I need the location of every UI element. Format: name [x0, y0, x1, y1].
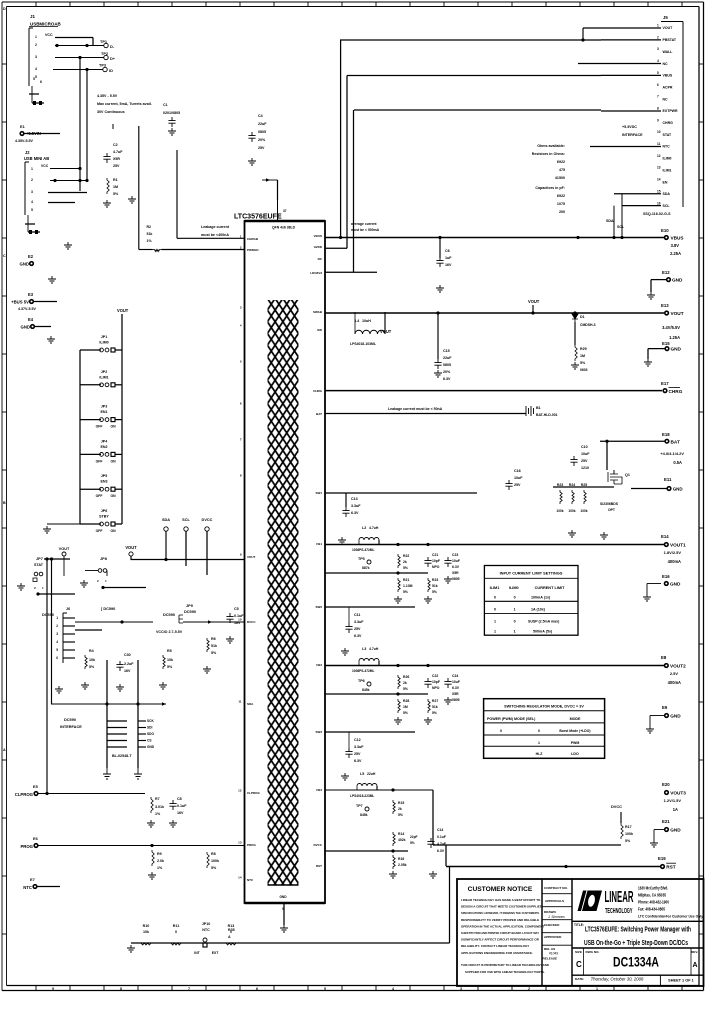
J1 shield stub	[31, 86, 33, 103]
schematic frame inner border	[7, 6, 700, 8]
svg-text:LPS4018-103ML: LPS4018-103ML	[350, 342, 376, 346]
svg-text:5%: 5%	[211, 866, 217, 870]
svg-text:+4.0/4.1/4.2V: +4.0/4.1/4.2V	[660, 451, 684, 456]
svg-text:100k: 100k	[580, 509, 587, 513]
svg-text:TITLE:: TITLE:	[574, 923, 584, 927]
svg-text:INTERFACE: INTERFACE	[622, 133, 643, 137]
svg-text:DC590: DC590	[64, 718, 76, 722]
wire J6 to JP9 row	[75, 621, 153, 623]
svg-text:Thursday, October 30, 2008: Thursday, October 30, 2008	[591, 977, 644, 982]
svg-text:C8: C8	[177, 797, 182, 801]
svg-text:6.3V: 6.3V	[452, 686, 460, 690]
svg-text:3.3uF: 3.3uF	[351, 504, 361, 508]
svg-text:E6: E6	[33, 837, 38, 841]
svg-text:GND: GND	[672, 278, 683, 283]
battery B1	[526, 406, 534, 416]
svg-text:3.3uF: 3.3uF	[354, 620, 364, 624]
svg-text:5: 5	[657, 71, 659, 75]
svg-text:10pF: 10pF	[432, 559, 440, 563]
J6 pin 3 stub	[63, 633, 75, 635]
svg-text:402k: 402k	[398, 838, 406, 842]
svg-text:E11: E11	[664, 477, 672, 482]
svg-text:4.37V-5.5V: 4.37V-5.5V	[18, 307, 37, 311]
svg-text:3.01k: 3.01k	[155, 805, 165, 809]
svg-text:1630 McCarthy Blvd.: 1630 McCarthy Blvd.	[638, 886, 668, 891]
svg-text:L2: L2	[362, 526, 366, 530]
svg-text:Burst Mode (+LDO): Burst Mode (+LDO)	[559, 729, 590, 733]
svg-text:15: 15	[657, 189, 661, 193]
wire NTC network row	[131, 942, 450, 944]
svg-text:INPUT CURRENT LIMIT SETTINGS: INPUT CURRENT LIMIT SETTINGS	[500, 572, 563, 576]
svg-text:0: 0	[175, 930, 177, 934]
svg-text:10k: 10k	[167, 658, 174, 662]
svg-text:[ DC590: [ DC590	[101, 607, 115, 611]
svg-text:5%: 5%	[403, 590, 408, 594]
svg-text:400mA: 400mA	[668, 559, 681, 564]
wire RST rail to turret	[446, 866, 660, 868]
svg-text:VOUT2: VOUT2	[670, 664, 686, 669]
wire D+ vertical to pin row	[176, 150, 178, 238]
svg-text:3: 3	[657, 47, 659, 51]
wire SCL drop from J5	[613, 206, 615, 238]
svg-text:NTC: NTC	[663, 145, 671, 149]
svg-text:2.25A: 2.25A	[670, 251, 681, 256]
svg-text:R24: R24	[569, 483, 575, 487]
J6 pin 1 stub	[63, 617, 75, 619]
wire J5 pin16 SCL stub	[622, 205, 661, 207]
svg-text:J2: J2	[25, 150, 30, 155]
svg-text:BAT: BAT	[671, 439, 680, 444]
ground for J2	[64, 242, 72, 249]
svg-text:C2: C2	[113, 143, 118, 147]
grounds buck2	[394, 717, 402, 724]
svg-text:200: 200	[559, 210, 565, 214]
svg-text:E8: E8	[661, 655, 667, 660]
wire DC590 bus rail	[51, 703, 166, 705]
ground under C11	[341, 648, 349, 655]
svg-text:SHEET 1 OF 1: SHEET 1 OF 1	[668, 979, 694, 983]
svg-text:TECHNOLOGY: TECHNOLOGY	[605, 906, 633, 915]
wire C4 to U1 top pin	[262, 179, 278, 181]
svg-text:6: 6	[40, 80, 42, 84]
svg-text:5%: 5%	[410, 841, 415, 845]
svg-text:4: 4	[56, 640, 58, 644]
svg-text:GND: GND	[673, 487, 684, 492]
svg-text:1.8V/2.5V: 1.8V/2.5V	[664, 550, 682, 555]
svg-text:SSQ-116-02-G-S: SSQ-116-02-G-S	[643, 212, 671, 216]
wire PROG to U1	[38, 845, 245, 847]
wire vertical rail 3	[353, 110, 355, 272]
svg-text:8: 8	[657, 106, 659, 110]
svg-text:1075: 1075	[557, 202, 565, 206]
svg-text:STBY: STBY	[99, 515, 109, 519]
svg-text:STAT: STAT	[34, 563, 44, 567]
svg-text:0: 0	[514, 596, 516, 600]
svg-text:0: 0	[500, 729, 502, 733]
svg-text:2.5V: 2.5V	[670, 671, 678, 676]
schematic frame outer border	[2, 1, 704, 3]
svg-text:JP1: JP1	[101, 335, 107, 339]
svg-text:1008PS-472ML: 1008PS-472ML	[352, 669, 374, 673]
svg-text:20%: 20%	[443, 370, 451, 374]
svg-text:must be <400nA: must be <400nA	[201, 233, 229, 237]
svg-text:NPO: NPO	[432, 565, 440, 569]
svg-text:X5R: X5R	[452, 692, 459, 696]
svg-text:6: 6	[657, 83, 659, 87]
svg-text:TP5: TP5	[358, 557, 365, 561]
wire D+ vertical from J2	[86, 70, 88, 181]
svg-text:0.5A: 0.5A	[673, 460, 682, 465]
border zone ticks right	[699, 63, 704, 65]
svg-text:C15: C15	[443, 349, 450, 353]
svg-text:3: 3	[56, 632, 58, 636]
svg-text:JP2: JP2	[101, 370, 107, 374]
svg-text:J6: J6	[66, 607, 70, 611]
svg-text:25V: 25V	[113, 164, 120, 168]
svg-text:LTC Confidential-For Customer: LTC Confidential-For Customer Use Only	[638, 915, 704, 919]
svg-text:RST: RST	[666, 865, 676, 870]
wire vertical rail 2	[346, 76, 348, 249]
svg-text:10uF: 10uF	[452, 559, 460, 563]
wire rail BAT sense	[325, 413, 526, 415]
svg-text:100k: 100k	[211, 859, 220, 863]
svg-text:14: 14	[238, 876, 242, 880]
svg-text:ILIM0: ILIM0	[663, 157, 672, 161]
wire C12 to SW3	[348, 732, 350, 748]
ground under C14	[429, 871, 437, 878]
svg-text:6.3V: 6.3V	[452, 565, 460, 569]
svg-text:R29: R29	[580, 347, 587, 351]
svg-text:6: 6	[56, 656, 58, 660]
ground for E2	[48, 276, 56, 283]
svg-text:7: 7	[657, 95, 659, 99]
svg-text:2k: 2k	[398, 807, 402, 811]
svg-text:DWG NO.: DWG NO.	[586, 950, 600, 954]
svg-text:1: 1	[494, 620, 496, 624]
wire D+ to U1	[177, 237, 245, 239]
svg-text:D1: D1	[580, 315, 585, 319]
svg-text:SW3: SW3	[315, 730, 322, 734]
svg-text:L4: L4	[355, 319, 359, 323]
wire rail CHRG to E17	[325, 390, 662, 392]
svg-text:SDO: SDO	[147, 732, 154, 736]
svg-text:LPS4018-223ML: LPS4018-223ML	[350, 794, 374, 798]
svg-text:BAT-HLD-001: BAT-HLD-001	[536, 413, 558, 417]
wire vertical rail to U1 right pin	[340, 40, 342, 238]
svg-text:ON: ON	[110, 494, 116, 498]
wire rail PBSTAT top	[340, 39, 601, 41]
svg-text:#1049: #1049	[549, 952, 558, 956]
svg-text:E19: E19	[658, 856, 666, 861]
ground under trio	[568, 530, 576, 537]
svg-text:DRAWN: DRAWN	[544, 910, 556, 914]
svg-text:C22: C22	[432, 674, 438, 678]
svg-text:CONTRACT NO.: CONTRACT NO.	[544, 886, 568, 890]
wire rail VBUS to E10	[325, 237, 664, 239]
svg-text:1.25A: 1.25A	[669, 335, 680, 340]
svg-text:X5R: X5R	[113, 157, 120, 161]
svg-text:RESPONSIBILITY TO VERIFY PROPE: RESPONSIBILITY TO VERIFY PROPER AND RELI…	[461, 918, 539, 922]
svg-text:2.2uF: 2.2uF	[124, 662, 134, 666]
svg-text:ILIM1: ILIM1	[99, 375, 108, 379]
ground J3 right	[134, 768, 142, 779]
J3 rung 3	[107, 733, 127, 735]
svg-text:EN3: EN3	[100, 480, 107, 484]
svg-text:A: A	[692, 962, 697, 969]
svg-text:2.0k: 2.0k	[157, 859, 165, 863]
svg-text:2k: 2k	[403, 681, 407, 685]
svg-text:B1: B1	[536, 406, 541, 410]
svg-text:20%: 20%	[258, 138, 266, 142]
svg-text:C6: C6	[445, 249, 450, 253]
svg-text:C24: C24	[452, 674, 458, 678]
svg-text:Resistors in Ohms:: Resistors in Ohms:	[532, 152, 565, 156]
svg-text:PWRGD: PWRGD	[247, 248, 259, 252]
svg-text:J5: J5	[663, 15, 668, 20]
wire E15 to ground	[648, 348, 665, 350]
svg-text:NC: NC	[663, 62, 669, 66]
svg-text:1.13M: 1.13M	[403, 584, 413, 588]
svg-text:must be < 500mA: must be < 500mA	[351, 228, 380, 232]
svg-text:4: 4	[657, 59, 659, 63]
svg-text:REL AS: REL AS	[544, 947, 555, 951]
svg-text:51k: 51k	[147, 232, 153, 236]
svg-text:5: 5	[33, 77, 35, 81]
svg-text:CLPROG: CLPROG	[15, 792, 34, 797]
svg-text:10k: 10k	[89, 658, 96, 662]
svg-text:2.05k: 2.05k	[398, 863, 407, 867]
svg-text:VBUS: VBUS	[663, 74, 673, 78]
svg-text:1210: 1210	[581, 466, 589, 470]
svg-text:SUSP (2.5mA max): SUSP (2.5mA max)	[528, 620, 559, 624]
svg-text:Hi-Z: Hi-Z	[536, 752, 544, 756]
wire D- vertical from J1	[79, 58, 81, 192]
svg-text:C13: C13	[351, 497, 358, 501]
svg-text:1%: 1%	[157, 866, 163, 870]
svg-text:GND: GND	[670, 582, 681, 587]
title block divider customer notice	[541, 879, 543, 986]
grounds under DC590 pulls	[55, 686, 63, 693]
svg-text:USBMICROAB: USBMICROAB	[30, 22, 62, 27]
svg-text:DVCC: DVCC	[611, 805, 622, 809]
svg-text:BAT: BAT	[316, 412, 322, 416]
svg-text:2: 2	[56, 624, 58, 628]
svg-text:OFF: OFF	[96, 459, 103, 463]
svg-text:5: 5	[35, 75, 37, 79]
svg-text:100mA (1x): 100mA (1x)	[531, 596, 551, 600]
svg-text:10pF: 10pF	[432, 680, 440, 684]
svg-text:CHRG: CHRG	[669, 389, 683, 394]
svg-text:10: 10	[657, 130, 661, 134]
svg-text:E14: E14	[661, 534, 669, 539]
ground J3 left	[103, 768, 111, 779]
svg-text:1008PS-472ML: 1008PS-472ML	[352, 548, 374, 552]
grounds under R7 C8	[147, 820, 155, 827]
svg-text:ILIM0: ILIM0	[99, 341, 108, 345]
svg-text:GND: GND	[670, 828, 681, 833]
svg-text:1: 1	[35, 35, 37, 39]
svg-text:POWER (PWM) MODE (SEL): POWER (PWM) MODE (SEL)	[487, 717, 536, 721]
border zone ticks bottom	[35, 986, 37, 991]
svg-text:NTC: NTC	[202, 928, 210, 932]
svg-text:A: A	[228, 935, 231, 939]
svg-text:E18: E18	[662, 432, 670, 437]
svg-text:10uF: 10uF	[514, 476, 523, 480]
svg-text:16V: 16V	[445, 263, 452, 267]
svg-text:4.7uF: 4.7uF	[113, 150, 123, 154]
svg-text:6922: 6922	[557, 160, 565, 164]
wire VOUT rail to U1 pin	[130, 556, 132, 560]
svg-text:ID: ID	[109, 69, 113, 73]
svg-text:51k: 51k	[211, 644, 218, 648]
svg-text:E15: E15	[662, 341, 670, 346]
svg-text:41500: 41500	[555, 176, 565, 180]
svg-text:CHRGB: CHRGB	[247, 237, 259, 241]
svg-text:845k: 845k	[360, 813, 368, 817]
svg-text:0: 0	[514, 620, 516, 624]
svg-text:1A: 1A	[673, 807, 678, 812]
svg-text:VCC: VCC	[41, 164, 49, 168]
svg-text:VOUT: VOUT	[671, 311, 684, 316]
svg-text:DATE:: DATE:	[575, 977, 584, 981]
svg-text:VCCIO 2.7-5.5V: VCCIO 2.7-5.5V	[156, 630, 183, 634]
svg-text:2: 2	[35, 43, 37, 47]
svg-text:22uF: 22uF	[258, 122, 267, 126]
svg-text:STAT: STAT	[663, 133, 673, 137]
svg-text:SW2: SW2	[315, 605, 322, 609]
svg-text:R5: R5	[167, 649, 172, 653]
svg-text:R9: R9	[157, 852, 162, 856]
svg-text:ILIM1: ILIM1	[663, 168, 672, 172]
svg-text:6.3V: 6.3V	[443, 377, 451, 381]
svg-text:USB On-the-Go + Triple Step-Do: USB On-the-Go + Triple Step-Down DC/DCs	[584, 938, 688, 947]
ground under Q1	[600, 532, 608, 539]
svg-text:EN: EN	[663, 180, 668, 184]
svg-text:R17: R17	[625, 825, 632, 829]
svg-text:C12: C12	[354, 738, 361, 742]
wire vertical RST	[445, 845, 447, 866]
wire J5 pin8 rail joins	[601, 110, 661, 112]
op IC U1 LTC3576EUFE body	[245, 221, 326, 903]
ground under C15	[434, 370, 442, 377]
pin 37 top stub of U1	[277, 200, 279, 221]
ground under C13	[338, 537, 346, 544]
svg-text:DC1334A: DC1334A	[613, 954, 659, 970]
svg-text:0805: 0805	[258, 130, 266, 134]
svg-text:R14: R14	[398, 832, 404, 836]
svg-text:+5.3VDC: +5.3VDC	[622, 125, 637, 129]
border zone ticks top	[35, 2, 37, 7]
wire U1 pin to rail2 vertical	[325, 247, 347, 249]
svg-text:Milpitas, CA 95035: Milpitas, CA 95035	[638, 893, 666, 898]
svg-text:16: 16	[657, 201, 661, 205]
svg-text:1: 1	[31, 167, 33, 171]
svg-text:22pF: 22pF	[410, 835, 418, 839]
wire DVCC rail	[433, 844, 621, 846]
svg-text:E12: E12	[662, 270, 670, 275]
grounds buck1	[394, 596, 402, 603]
svg-text:LDO3V3: LDO3V3	[310, 271, 322, 275]
svg-text:LTC3576EUFE: Switching Power M: LTC3576EUFE: Switching Power Manager wit…	[585, 925, 691, 934]
wire C15 to rail	[437, 312, 439, 359]
svg-text:CLPROG: CLPROG	[247, 791, 261, 795]
wire vertical to RST rail	[449, 866, 451, 943]
svg-text:25V: 25V	[514, 483, 521, 487]
svg-text:R11: R11	[173, 924, 179, 928]
svg-text:BL-02548-T: BL-02548-T	[112, 754, 132, 758]
svg-text:SCL: SCL	[182, 518, 190, 522]
svg-text:R27: R27	[432, 699, 438, 703]
wire JP7 bottom	[38, 593, 75, 595]
J6 pin 2 stub	[63, 625, 75, 627]
svg-text:1M: 1M	[113, 185, 118, 189]
wire diode to R29	[574, 322, 576, 345]
svg-text:5%: 5%	[432, 590, 437, 594]
svg-text:1M: 1M	[580, 354, 585, 358]
svg-text:E9: E9	[662, 705, 668, 710]
wire J5 pin1 stub	[583, 27, 661, 29]
svg-text:1%: 1%	[147, 239, 153, 243]
border zone ticks left	[2, 63, 7, 65]
svg-text:APPLICATIONS ENGINEERING FOR A: APPLICATIONS ENGINEERING FOR ASSISTANCE.	[461, 951, 533, 955]
svg-text:0: 0	[494, 608, 496, 612]
svg-text:2k: 2k	[403, 560, 407, 564]
svg-text:PROG: PROG	[20, 844, 33, 849]
svg-text:FB2: FB2	[316, 663, 322, 667]
svg-text:J1: J1	[30, 14, 35, 19]
svg-text:EN2: EN2	[100, 445, 107, 449]
svg-text:R10: R10	[143, 924, 150, 928]
svg-text:5: 5	[324, 987, 326, 991]
ground under R9	[148, 872, 156, 879]
svg-text:VOUT: VOUT	[59, 547, 70, 551]
svg-text:6.3V: 6.3V	[354, 759, 362, 763]
svg-text:INT: INT	[194, 951, 200, 955]
svg-text:100k: 100k	[568, 509, 575, 513]
svg-text:R23: R23	[557, 483, 563, 487]
svg-text:C1: C1	[163, 103, 168, 107]
svg-text:16V: 16V	[177, 811, 184, 815]
wire JP8 to right	[103, 587, 146, 589]
svg-text:VOUT: VOUT	[247, 555, 256, 559]
svg-text:WALL: WALL	[663, 50, 674, 54]
svg-text:0201/0805: 0201/0805	[163, 111, 180, 115]
wire jumper left rail	[79, 350, 81, 524]
wire J5 pin5 rail joins	[601, 74, 661, 76]
svg-text:10k: 10k	[143, 930, 150, 934]
svg-text:C30: C30	[124, 653, 131, 657]
svg-text:3.4V/5.5V: 3.4V/5.5V	[662, 325, 680, 330]
svg-text:JP10: JP10	[202, 922, 210, 926]
U1 exposed pad crosshatch	[268, 300, 299, 885]
svg-text:1: 1	[596, 987, 598, 991]
svg-text:CHRG: CHRG	[313, 389, 322, 393]
svg-text:TP6: TP6	[358, 679, 365, 683]
svg-text:8: 8	[120, 987, 122, 991]
wire D- vertical to pin row	[138, 126, 140, 250]
svg-text:GND: GND	[20, 262, 29, 267]
svg-text:REV.: REV.	[691, 950, 698, 954]
svg-text:VOUT: VOUT	[125, 545, 137, 550]
svg-text:6.3V: 6.3V	[437, 849, 445, 853]
approvals column rows	[542, 893, 572, 895]
svg-text:13: 13	[238, 841, 242, 845]
wire FB3 from U1	[325, 850, 408, 852]
svg-text:E17: E17	[661, 381, 669, 386]
svg-text:3: 3	[31, 190, 33, 194]
svg-text:JP8: JP8	[100, 557, 108, 561]
svg-text:X5R: X5R	[452, 571, 459, 575]
